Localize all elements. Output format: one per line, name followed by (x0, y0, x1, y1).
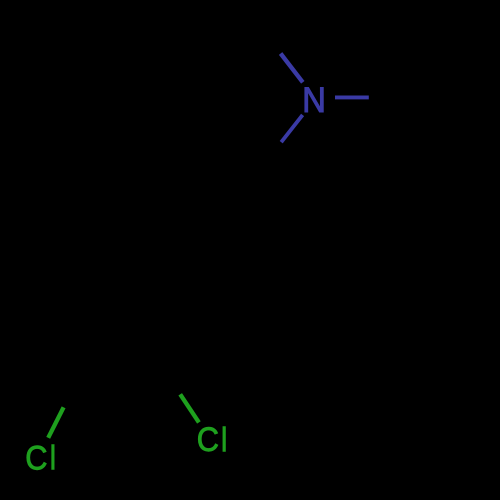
bond N-CH3 upper-left (blue half) (281, 54, 303, 83)
svg-text:l: l (50, 439, 57, 477)
bond C-Cl right (green half) (180, 394, 199, 422)
svg-text:N: N (302, 81, 326, 120)
bond C-Cl left lower half (63, 356, 82, 407)
bond N-C1 lower half (250, 142, 283, 186)
carbon skeleton (black on black, invisible in source) (63, 9, 422, 407)
bond N-C1 down-left (blue half) (281, 115, 302, 142)
svg-text:l: l (221, 421, 228, 459)
svg-text:C: C (25, 439, 47, 477)
bond C1-CH3 upper methyl half (247, 9, 281, 53)
bond C-Cl left (green half) (48, 407, 63, 438)
bond N-CH3 right (blue half) (335, 95, 369, 99)
bond N-CH3 right methyl half (368, 96, 422, 100)
svg-text:C: C (197, 421, 219, 459)
aryl ring bonds (82, 186, 250, 357)
bond C-Cl right lower half (151, 351, 180, 394)
